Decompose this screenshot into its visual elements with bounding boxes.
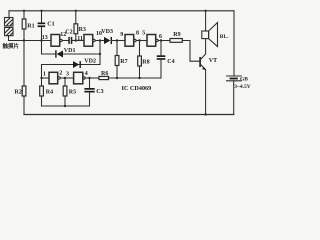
- diode VD3: [104, 37, 125, 44]
- junction R8 bottom: [138, 77, 140, 79]
- svg-text:3~4.5V: 3~4.5V: [234, 84, 250, 90]
- junction R5 bottom: [64, 105, 66, 107]
- svg-text:10: 10: [96, 31, 102, 37]
- speaker BL: [202, 11, 218, 47]
- svg-text:R4: R4: [46, 90, 53, 96]
- wire pin2 to pin3: [60, 77, 74, 79]
- svg-text:触摸片: 触摸片: [3, 42, 20, 50]
- wire bottom rail: [24, 114, 234, 116]
- wire top rail: [9, 10, 234, 12]
- wire pin1: [42, 77, 50, 79]
- svg-text:R9: R9: [173, 32, 180, 38]
- svg-text:R6: R6: [101, 71, 108, 77]
- resistor R4: [40, 78, 44, 106]
- node A junction R2: [23, 39, 25, 41]
- wire pin4 out: [85, 77, 99, 79]
- diode VD1: [55, 50, 100, 57]
- svg-text:C4: C4: [167, 59, 174, 65]
- svg-text:R3: R3: [79, 27, 86, 33]
- wire feedback vertical: [99, 41, 101, 65]
- svg-text:8: 8: [136, 31, 139, 37]
- junction VD1 anode: [99, 53, 101, 55]
- wire pin10 to VD3: [95, 40, 104, 42]
- svg-text:5: 5: [142, 31, 145, 37]
- wire pin6 out: [158, 40, 170, 42]
- capacitor C3: [84, 78, 94, 106]
- inverter gate U1c pins 1-2: [49, 72, 60, 84]
- junction emitter bottom rail: [204, 113, 206, 115]
- svg-text:C1: C1: [47, 22, 54, 28]
- junction R5 top: [64, 77, 66, 79]
- junction pin1 node: [40, 77, 42, 79]
- inverter gate U1b pins 11-10: [84, 35, 95, 47]
- capacitor C4: [157, 41, 166, 79]
- junction C4 top: [160, 39, 162, 41]
- resistor R8: [138, 41, 142, 79]
- inverter gate U1e pins 9-8: [125, 35, 136, 47]
- svg-text:R1: R1: [27, 24, 34, 30]
- svg-text:BL.: BL.: [220, 34, 229, 40]
- resistor R3: [74, 11, 78, 41]
- svg-text:4: 4: [85, 71, 88, 77]
- svg-text:VD1: VD1: [64, 48, 76, 54]
- svg-text:R7: R7: [120, 59, 127, 65]
- junction top rail R3: [75, 10, 77, 12]
- svg-text:3: 3: [66, 72, 69, 78]
- svg-text:R2: R2: [15, 90, 22, 96]
- junction top rail R1: [23, 10, 25, 12]
- node A junction C1: [40, 39, 42, 41]
- junction R8 top: [138, 39, 140, 41]
- touch pad plates: [5, 18, 14, 36]
- junction top rail C1: [40, 10, 42, 12]
- svg-text:IC CD4069: IC CD4069: [122, 85, 152, 92]
- wire touch pad bottom lead to node A: [9, 36, 52, 41]
- diode VD2: [73, 61, 81, 68]
- capacitor C2: [68, 37, 84, 44]
- resistor R5: [63, 78, 67, 106]
- op-amp/inverter gate U1a pins 13-12: [51, 35, 62, 47]
- svg-text:9: 9: [120, 32, 123, 38]
- resistor R9: [170, 39, 199, 62]
- wire pin8 to pin5: [136, 40, 147, 42]
- resistor R1: [22, 11, 26, 41]
- resistor R7: [115, 41, 119, 79]
- junction R7 bottom: [116, 77, 118, 79]
- junction top rail speaker: [204, 10, 206, 12]
- svg-text:GB: GB: [240, 77, 248, 83]
- resistor R6: [99, 76, 161, 79]
- svg-text:1: 1: [43, 72, 46, 78]
- junction pin9 node R7: [116, 39, 118, 41]
- wire pin12 to C2: [62, 40, 68, 42]
- svg-text:R5: R5: [69, 90, 76, 96]
- wire VD2 branch: [42, 65, 101, 79]
- svg-text:2: 2: [59, 71, 62, 77]
- svg-text:11: 11: [77, 36, 83, 42]
- transistor VT: [199, 39, 206, 115]
- svg-text:12: 12: [60, 32, 66, 38]
- junction pin11 node R3: [75, 39, 77, 41]
- junction feedback node: [99, 39, 101, 41]
- wire VD1 branch from node A: [42, 41, 56, 55]
- inverter gate U1f pins 5-6: [147, 35, 158, 47]
- svg-text:VT: VT: [209, 58, 217, 64]
- battery GB: [227, 11, 242, 115]
- svg-text:6: 6: [159, 34, 162, 40]
- resistor R2: [22, 41, 26, 115]
- svg-text:C2: C2: [65, 30, 72, 36]
- junction C3 top: [88, 77, 90, 79]
- svg-text:C3: C3: [96, 89, 103, 95]
- svg-text:R8: R8: [142, 60, 149, 66]
- wire oscillator bottom bus: [42, 105, 90, 107]
- capacitor C1: [38, 11, 46, 41]
- svg-text:VD3: VD3: [101, 29, 113, 35]
- inverter gate U1d pins 3-4: [74, 72, 86, 84]
- svg-text:VD2: VD2: [84, 59, 96, 65]
- wire touch pad top lead: [8, 11, 10, 18]
- svg-text:13: 13: [42, 35, 48, 41]
